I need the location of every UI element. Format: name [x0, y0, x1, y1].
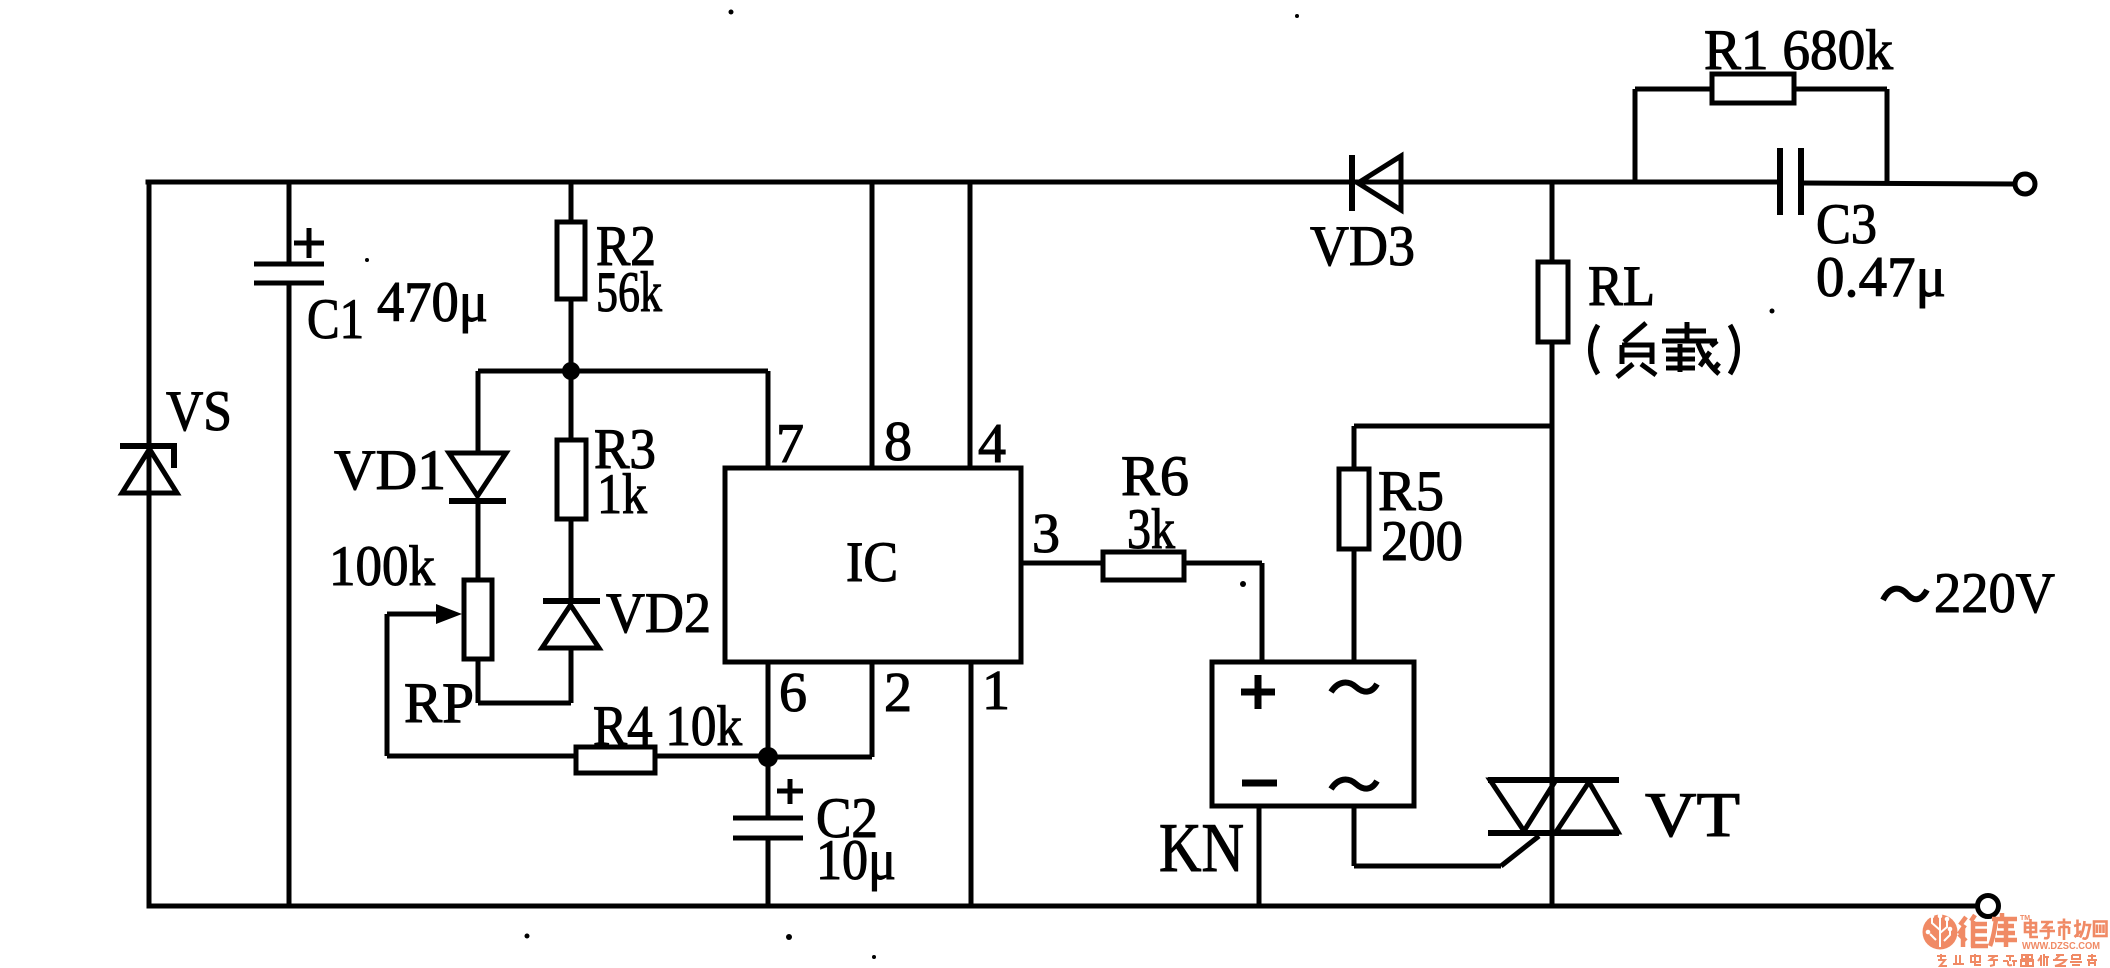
svg-text:R4 10k: R4 10k	[593, 695, 742, 758]
svg-text:3k: 3k	[1127, 498, 1175, 561]
svg-text:1k: 1k	[597, 463, 647, 526]
diode VD3	[1352, 155, 1401, 211]
wire left rail	[147, 182, 152, 906]
terminal node bottom right	[1978, 896, 1999, 917]
node wire from R2/R3 junction to pin 7	[478, 369, 768, 374]
triac VT	[1488, 780, 1619, 906]
svg-text:0.47μ: 0.47μ	[1816, 246, 1946, 309]
resistor RL (load)	[1538, 182, 1568, 780]
diode VD1	[449, 371, 506, 580]
svg-text:VD1: VD1	[334, 439, 446, 502]
zener diode VS	[120, 446, 177, 493]
wire pin 4	[968, 182, 973, 468]
svg-text:10μ: 10μ	[816, 829, 896, 892]
svg-text:3: 3	[1032, 503, 1060, 565]
watermark dianzishichangwang characters	[2025, 919, 2107, 941]
wire RP bottom to VD2 anode	[476, 659, 481, 703]
resistor R4	[387, 747, 768, 773]
KN ac terminal mark bottom	[1331, 780, 1377, 789]
svg-text:TM: TM	[2020, 915, 2030, 922]
svg-text:200: 200	[1381, 510, 1463, 573]
svg-text:VS: VS	[166, 380, 232, 443]
svg-text:VD3: VD3	[1310, 215, 1415, 278]
capacitor C1	[254, 182, 324, 906]
junction dot B	[758, 747, 778, 767]
svg-text:RL: RL	[1588, 255, 1655, 318]
label ~220V	[1883, 562, 2055, 625]
op-amp IC U1 box	[725, 468, 1021, 662]
svg-text:VT: VT	[1645, 779, 1740, 850]
resistor R6	[1103, 552, 1262, 662]
svg-text:VD2: VD2	[606, 582, 711, 645]
svg-text:R1 680k: R1 680k	[1704, 19, 1893, 82]
watermark weiku characters	[1959, 913, 2017, 947]
wire bottom rail	[149, 904, 1976, 909]
resistor R3	[557, 371, 586, 601]
svg-text:1: 1	[982, 660, 1010, 722]
svg-text:8: 8	[884, 411, 912, 473]
wire pin 7	[766, 371, 771, 468]
KN plus terminal mark	[1241, 689, 1275, 696]
wire KN ac to triac gate	[1352, 806, 1357, 866]
svg-text:IC: IC	[846, 531, 898, 594]
resistor R1	[1635, 74, 1887, 182]
capacitor C3	[1780, 148, 1801, 215]
resistor R2	[557, 182, 585, 371]
svg-text:7: 7	[776, 413, 804, 475]
svg-text:RP: RP	[404, 672, 474, 735]
terminal node top right	[2015, 174, 2035, 194]
resistor R5	[1339, 426, 1552, 662]
wire pin 8	[870, 182, 875, 468]
svg-text:4: 4	[978, 413, 1006, 475]
svg-text:WWW.DZSC.COM: WWW.DZSC.COM	[2022, 940, 2100, 952]
svg-text:470μ: 470μ	[377, 271, 488, 334]
KN ac terminal mark top	[1331, 683, 1377, 692]
wire pin 1	[969, 662, 974, 906]
wire KN minus to bottom rail	[1257, 806, 1262, 906]
wire pin 3	[1021, 561, 1103, 566]
scan speckles	[365, 10, 1775, 960]
watermark logo	[1923, 914, 1958, 950]
wire top rail right of C3	[1803, 183, 2014, 184]
svg-text:6: 6	[779, 662, 807, 724]
KN minus terminal mark	[1242, 780, 1277, 787]
junction dot A	[562, 362, 580, 380]
svg-text:KN: KN	[1159, 810, 1244, 887]
svg-text:2: 2	[884, 662, 912, 724]
capacitor C2	[733, 757, 803, 906]
wire pin 2	[768, 662, 872, 757]
watermark slogan characters	[1937, 954, 2097, 966]
potentiometer RP	[387, 580, 571, 756]
wire RP wiper down to R4	[385, 614, 390, 756]
svg-text:100k: 100k	[329, 535, 435, 598]
svg-text:56k: 56k	[596, 261, 662, 324]
label (fuzai) load - hand drawn CJK	[1591, 322, 1738, 377]
wire pin 6	[766, 662, 771, 757]
wire RP wiper arrow	[387, 612, 440, 617]
zener diode VD2	[542, 601, 600, 703]
svg-text:C1: C1	[307, 288, 364, 351]
wire top rail left of C3	[148, 180, 1780, 185]
relay KN box	[1212, 662, 1539, 906]
svg-text:220V: 220V	[1934, 562, 2055, 625]
